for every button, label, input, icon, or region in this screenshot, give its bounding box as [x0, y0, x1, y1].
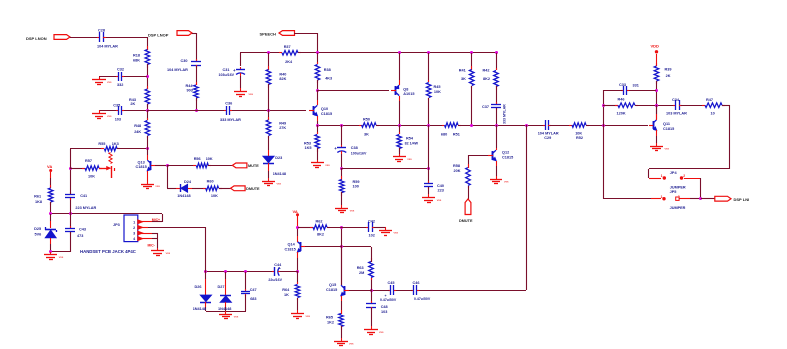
ground — [240, 88, 242, 92]
connector JP3 — [124, 215, 138, 242]
svg-text:R56: R56 — [194, 157, 201, 161]
node junction — [602, 104, 605, 107]
svg-text:C46: C46 — [413, 281, 420, 285]
wire — [341, 246, 371, 248]
wire — [70, 198, 72, 214]
node junction — [224, 270, 227, 273]
svg-text:MIC-: MIC- — [148, 244, 155, 248]
ground — [317, 160, 319, 163]
svg-text:C1815: C1815 — [285, 247, 296, 251]
wire — [342, 168, 429, 170]
svg-text:8K2: 8K2 — [317, 233, 324, 237]
svg-text:R42: R42 — [483, 69, 490, 73]
svg-text:1N4148: 1N4148 — [218, 307, 231, 311]
transistor Q8 — [395, 86, 397, 95]
wire — [99, 110, 116, 112]
wire — [117, 148, 147, 150]
ground — [99, 110, 101, 114]
wire — [468, 155, 488, 157]
ground — [656, 143, 658, 146]
wire — [70, 168, 72, 194]
node junction — [146, 75, 149, 78]
svg-text:R60: R60 — [207, 179, 214, 183]
port MUTE — [232, 163, 247, 168]
resistor R40 — [268, 66, 270, 70]
svg-text:+: + — [334, 146, 337, 151]
svg-text:332: 332 — [117, 83, 123, 87]
wire — [341, 192, 343, 205]
transistor Q15 — [344, 286, 346, 295]
wire output loop — [722, 105, 730, 107]
wire — [428, 98, 430, 125]
node junction — [370, 289, 373, 292]
svg-text:Q13: Q13 — [138, 160, 145, 164]
wire — [268, 110, 270, 120]
svg-text:vss: vss — [349, 341, 354, 345]
svg-text:2M: 2M — [359, 271, 364, 275]
wire — [341, 227, 343, 285]
resistor R51 — [442, 125, 444, 127]
wire — [496, 86, 498, 104]
svg-text:DSP LNI: DSP LNI — [734, 197, 750, 202]
wire — [341, 125, 343, 145]
svg-text:C47: C47 — [250, 288, 257, 292]
capacitor C29 — [543, 125, 545, 127]
svg-text:vss: vss — [437, 198, 442, 202]
svg-text:JUMPER: JUMPER — [670, 186, 686, 190]
diode D26 — [205, 272, 207, 279]
svg-text:104 MYLAR: 104 MYLAR — [167, 68, 188, 72]
resistor R41 — [471, 66, 473, 70]
diode D24 — [176, 188, 180, 190]
wire mic bias line — [51, 213, 162, 215]
wire — [317, 53, 319, 64]
svg-text:vss: vss — [107, 114, 112, 118]
ground — [297, 310, 299, 314]
wire — [124, 110, 147, 112]
ground — [268, 178, 270, 181]
svg-text:82 1/4W: 82 1/4W — [405, 141, 419, 145]
svg-text:3K: 3K — [364, 132, 369, 136]
resistor R60 — [203, 188, 206, 190]
svg-text:R48: R48 — [134, 124, 141, 128]
resistor R61 — [50, 185, 52, 188]
wire pin3 — [138, 233, 152, 235]
wire — [603, 90, 605, 199]
wire — [428, 125, 430, 183]
wire — [147, 37, 149, 50]
capacitor C42 — [366, 227, 369, 229]
svg-text:1K2: 1K2 — [327, 320, 334, 324]
svg-text:223 MYLAR: 223 MYLAR — [75, 206, 96, 210]
svg-text:VA: VA — [47, 164, 52, 169]
diode D23 — [268, 150, 270, 156]
svg-text:R39: R39 — [665, 68, 672, 72]
svg-text:vss: vss — [504, 179, 509, 183]
svg-text:Q11: Q11 — [663, 122, 670, 126]
wire — [240, 76, 242, 88]
svg-text:333 MYLAR: 333 MYLAR — [503, 104, 507, 124]
svg-text:1N4148: 1N4148 — [273, 172, 286, 176]
resistor R65 — [341, 310, 343, 314]
wire — [206, 311, 246, 313]
svg-text:R40: R40 — [279, 73, 286, 77]
wire — [50, 202, 52, 214]
svg-text:R61: R61 — [34, 195, 41, 199]
node junction — [655, 104, 658, 107]
wire — [374, 227, 386, 229]
wire — [603, 90, 622, 92]
resistor R39 — [656, 63, 658, 66]
wire — [192, 188, 206, 190]
node junction — [316, 51, 319, 54]
svg-text:JP5: JP5 — [670, 190, 677, 194]
svg-text:C48: C48 — [381, 305, 388, 309]
wire — [395, 290, 412, 292]
ground — [147, 181, 149, 184]
svg-text:2: 2 — [683, 174, 685, 178]
resistor R57 — [70, 168, 85, 170]
wire — [341, 168, 343, 180]
node junction — [267, 51, 270, 54]
ground — [399, 154, 401, 157]
wire rail B — [298, 52, 496, 54]
node junction — [195, 109, 198, 112]
svg-text:R45: R45 — [434, 85, 441, 89]
svg-text:vss: vss — [379, 330, 384, 334]
svg-text:2K: 2K — [666, 74, 671, 78]
ground — [496, 176, 498, 179]
svg-text:R38: R38 — [324, 68, 331, 72]
wire — [471, 86, 473, 125]
wire — [656, 81, 658, 119]
svg-text:10: 10 — [711, 112, 715, 116]
capacitor C37 — [496, 102, 498, 104]
wire rail C — [317, 125, 362, 127]
svg-text:R44: R44 — [186, 84, 194, 88]
wire rail C — [458, 125, 543, 127]
wire rail C — [586, 125, 648, 127]
transistor Q11 — [653, 121, 655, 129]
svg-text:1K5: 1K5 — [305, 146, 312, 150]
wire — [399, 125, 401, 134]
capacitor C40 — [428, 181, 430, 183]
wire — [317, 148, 319, 160]
svg-text:D23: D23 — [275, 156, 282, 160]
resistor R58 — [468, 164, 470, 168]
svg-text:D24: D24 — [184, 180, 192, 184]
svg-text:R57: R57 — [85, 159, 92, 163]
transistor Q13 — [150, 161, 152, 170]
svg-text:C1815: C1815 — [136, 165, 147, 169]
svg-text:DSP LNON: DSP LNON — [26, 36, 47, 41]
svg-text:10K: 10K — [211, 194, 218, 198]
node junction — [525, 124, 528, 127]
svg-text:vss: vss — [234, 314, 239, 318]
svg-text:1K3: 1K3 — [112, 142, 119, 146]
svg-text:C37: C37 — [482, 105, 489, 109]
svg-text:vss: vss — [277, 181, 282, 185]
svg-text:2K4: 2K4 — [285, 60, 293, 64]
svg-text:C35: C35 — [113, 103, 120, 107]
svg-text:1N4148: 1N4148 — [177, 194, 190, 198]
wire — [298, 227, 313, 229]
svg-text:vss: vss — [166, 251, 171, 255]
svg-text:10K: 10K — [88, 174, 95, 178]
svg-text:vss: vss — [306, 314, 311, 318]
wire — [341, 154, 343, 168]
node junction — [69, 212, 72, 215]
resistor R43 — [147, 86, 149, 89]
svg-text:C42: C42 — [368, 219, 375, 223]
resistor R46 — [615, 105, 618, 107]
wire — [468, 186, 470, 199]
node junction — [470, 51, 473, 54]
svg-text:R54: R54 — [406, 136, 414, 140]
resistor R37 — [279, 52, 282, 54]
wire pin2 — [138, 227, 148, 229]
svg-text:D27: D27 — [218, 285, 225, 289]
svg-text:R46: R46 — [618, 97, 625, 101]
wire — [496, 53, 498, 70]
wire — [428, 53, 430, 82]
wire — [371, 247, 373, 262]
wire — [317, 125, 319, 134]
capacitor C46 — [411, 290, 413, 292]
wire — [371, 290, 389, 292]
wire pin1 — [138, 221, 152, 223]
svg-text:903: 903 — [187, 88, 193, 92]
wire — [147, 136, 149, 149]
resistor R38 — [317, 62, 319, 64]
wire — [70, 214, 72, 228]
svg-text:SPEECH: SPEECH — [260, 32, 277, 37]
node junction — [316, 89, 319, 92]
svg-text:vss: vss — [350, 208, 355, 212]
capacitor C34 — [673, 105, 676, 107]
svg-text:683: 683 — [250, 297, 256, 301]
svg-text:Q8: Q8 — [403, 87, 408, 91]
resistor R52 — [569, 125, 572, 127]
node junction — [296, 270, 299, 273]
svg-text:C45: C45 — [388, 281, 395, 285]
resistor R42 — [496, 68, 498, 70]
svg-text:C1815: C1815 — [326, 288, 337, 292]
wire pin4 — [138, 238, 152, 240]
transistor Q10 — [313, 106, 315, 115]
svg-text:5V6: 5V6 — [35, 232, 42, 236]
wire — [371, 278, 373, 290]
wire — [327, 227, 367, 229]
svg-text:C44: C44 — [274, 263, 282, 267]
svg-text:Q12: Q12 — [502, 151, 509, 155]
svg-text:DMUTE: DMUTE — [246, 187, 260, 191]
svg-text:102: 102 — [369, 233, 375, 237]
wire — [147, 149, 149, 155]
wire rail C — [550, 125, 572, 127]
wire — [196, 66, 198, 85]
svg-text:HANDSET PCB JACK 4P4C: HANDSET PCB JACK 4P4C — [80, 249, 136, 254]
node junction — [244, 270, 247, 273]
ground — [385, 227, 387, 230]
svg-text:R52: R52 — [576, 136, 583, 140]
svg-text:Q15: Q15 — [329, 283, 336, 287]
svg-text:103: 103 — [115, 118, 121, 122]
wire — [280, 271, 298, 273]
svg-text:VA: VA — [293, 209, 298, 214]
svg-text:R53: R53 — [304, 141, 311, 145]
svg-text:8K2: 8K2 — [483, 77, 490, 81]
transistor Q12 — [492, 151, 494, 160]
wire — [167, 165, 196, 167]
node junction — [340, 124, 343, 127]
wire — [157, 239, 159, 248]
wire — [526, 125, 528, 290]
svg-text:103: 103 — [381, 310, 387, 314]
wire — [196, 98, 198, 110]
svg-text:1K8: 1K8 — [35, 200, 42, 204]
wire — [147, 110, 149, 120]
svg-text:82K: 82K — [279, 77, 286, 81]
svg-text:R51: R51 — [453, 132, 460, 136]
wire — [50, 244, 52, 252]
svg-text:DMUTE: DMUTE — [459, 219, 473, 223]
wire — [700, 178, 702, 199]
wire — [240, 53, 242, 66]
capacitor C44 — [272, 271, 274, 273]
node junction — [340, 245, 343, 248]
svg-text:3: 3 — [133, 232, 135, 236]
svg-text:C41: C41 — [80, 194, 87, 198]
wire — [246, 271, 273, 273]
svg-text:vss: vss — [107, 80, 112, 84]
wire — [70, 37, 97, 39]
svg-text:D26: D26 — [195, 285, 202, 289]
diode D27 — [225, 272, 227, 279]
node junction — [166, 164, 169, 167]
capacitor C33 — [621, 90, 623, 92]
svg-text:223: 223 — [438, 189, 444, 193]
svg-text:R41: R41 — [459, 69, 466, 73]
wire — [268, 136, 270, 150]
node junction — [699, 197, 702, 200]
svg-text:100: 100 — [353, 184, 359, 188]
ground — [428, 194, 430, 198]
wire — [147, 104, 149, 110]
resistor R18 — [147, 46, 149, 50]
node junction — [398, 124, 401, 127]
svg-text:vss: vss — [59, 255, 64, 259]
resistor R50 — [359, 125, 362, 127]
svg-text:24K: 24K — [134, 130, 141, 134]
wire rail C — [376, 125, 444, 127]
svg-text:4K3: 4K3 — [325, 77, 332, 81]
ground — [157, 248, 159, 251]
resistor R56 — [193, 165, 196, 167]
svg-text:vss: vss — [665, 146, 670, 150]
wire — [318, 90, 389, 92]
svg-text:1: 1 — [661, 174, 663, 178]
svg-text:R65: R65 — [326, 316, 333, 320]
svg-text:C34: C34 — [672, 98, 680, 102]
svg-text:Q10: Q10 — [321, 107, 328, 111]
svg-text:27K: 27K — [279, 126, 286, 130]
node junction — [398, 51, 401, 54]
wire — [147, 64, 149, 89]
wire — [268, 84, 270, 110]
svg-text:C1815: C1815 — [502, 155, 513, 159]
svg-text:103 MYLAR: 103 MYLAR — [666, 112, 687, 116]
svg-text:C1815: C1815 — [321, 112, 332, 116]
node junction — [146, 147, 149, 150]
wire — [471, 53, 473, 70]
ground — [371, 326, 373, 330]
node junction — [427, 167, 430, 170]
capacitor C45 — [388, 290, 390, 292]
svg-text:Q14: Q14 — [288, 243, 296, 247]
node junction — [204, 270, 207, 273]
svg-text:C29: C29 — [544, 136, 551, 140]
svg-text:120K: 120K — [617, 112, 626, 116]
svg-text:+: + — [385, 294, 387, 298]
svg-text:vss: vss — [407, 157, 412, 161]
node junction — [427, 124, 430, 127]
wire — [50, 214, 52, 221]
node junction — [427, 51, 430, 54]
svg-text:R64: R64 — [282, 288, 290, 292]
wire — [147, 110, 224, 112]
trimmer VR red — [99, 168, 107, 170]
capacitor C28 — [97, 37, 100, 39]
svg-text:331: 331 — [633, 84, 639, 88]
svg-text:R58: R58 — [453, 164, 460, 168]
svg-text:R62: R62 — [316, 220, 323, 224]
svg-text:R18: R18 — [133, 53, 140, 57]
wire — [50, 178, 52, 188]
wire — [496, 125, 498, 148]
node junction — [340, 167, 343, 170]
capacitor C47 — [245, 272, 247, 290]
ground — [341, 338, 343, 341]
svg-text:C32: C32 — [117, 68, 124, 72]
wire — [70, 149, 72, 168]
wire — [268, 53, 270, 70]
svg-text:R50: R50 — [363, 117, 370, 121]
svg-text:A1015: A1015 — [403, 92, 414, 96]
svg-text:R37: R37 — [284, 45, 291, 49]
svg-text:vss: vss — [325, 163, 330, 167]
wire — [418, 290, 526, 292]
wire — [167, 165, 169, 188]
svg-text:C38: C38 — [351, 146, 358, 150]
wire — [106, 37, 147, 39]
svg-text:R49: R49 — [279, 121, 286, 125]
svg-text:DSP LNOP: DSP LNOP — [148, 32, 169, 37]
wire — [124, 76, 147, 78]
resistor R44 — [196, 82, 198, 85]
svg-text:JUMPER: JUMPER — [670, 206, 686, 210]
node junction — [146, 109, 149, 112]
wire — [51, 251, 70, 253]
svg-text:2K: 2K — [130, 102, 135, 106]
svg-text:C43: C43 — [79, 228, 86, 232]
svg-text:100u/16V: 100u/16V — [351, 152, 367, 156]
wire — [196, 33, 198, 61]
svg-text:103u/16V: 103u/16V — [219, 73, 235, 77]
wire — [496, 108, 498, 125]
wire — [70, 232, 72, 252]
svg-text:MUTE: MUTE — [248, 164, 259, 168]
